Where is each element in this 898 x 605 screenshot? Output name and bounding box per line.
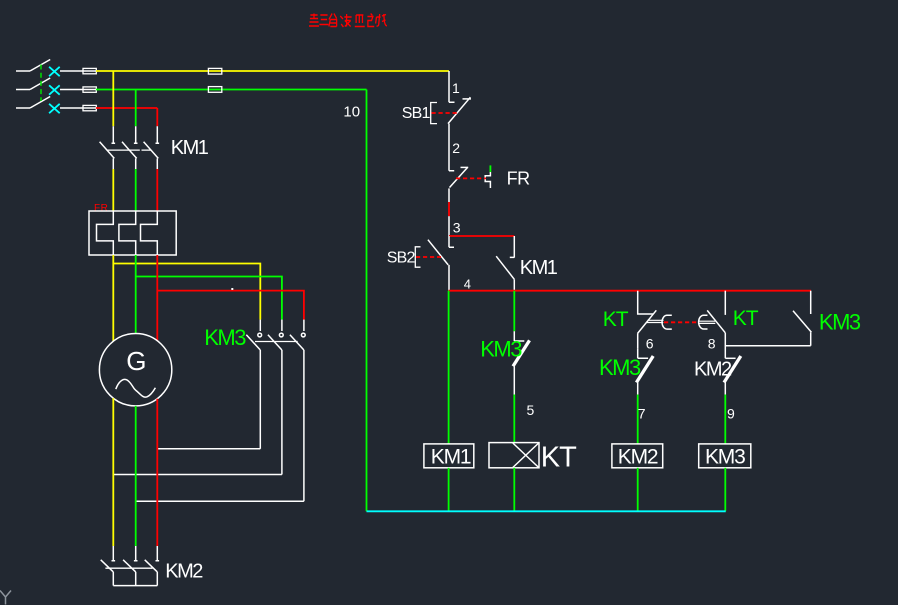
wire KM3 pole1 to red: [157, 448, 260, 450]
wire yellow branch to KM3: [113, 264, 260, 320]
switch QS pole 3 lead: [16, 107, 30, 109]
coil KT box: [489, 443, 539, 468]
wire FR to node3 white: [448, 188, 450, 202]
title 星三角减压启动: [309, 14, 387, 28]
wire 10 green: [366, 90, 368, 512]
wire L3 drop to KM1: [156, 108, 158, 126]
wire KM1 aux to node4: [513, 279, 515, 290]
wire KM3aux branch green: [513, 291, 515, 332]
svg-text:KM3: KM3: [705, 445, 745, 468]
SB1 dashed link: [432, 112, 458, 114]
svg-text:KM3: KM3: [480, 336, 522, 361]
wire red motor to KM2: [156, 399, 158, 546]
svg-text:9: 9: [727, 406, 735, 422]
switch QS linkage dashed: [40, 65, 42, 102]
junction dot: [231, 288, 233, 290]
svg-text:FR: FR: [94, 203, 108, 214]
coil KM3 box: [699, 444, 751, 468]
KM1 main linkage: [107, 149, 152, 151]
svg-text:G: G: [126, 346, 146, 376]
label SB2: [387, 250, 416, 267]
contactor KM2 main pole 2: [123, 546, 137, 586]
svg-text:KM2: KM2: [618, 445, 658, 468]
label SB1: [402, 105, 431, 122]
pushbutton SB2 blade: [428, 240, 448, 265]
coil KM1 text: [431, 445, 471, 468]
wire pole3 to fuse: [60, 107, 96, 109]
svg-text:KM1: KM1: [171, 137, 209, 159]
wire 1 white: [449, 71, 455, 102]
wire red KM1 to FR: [156, 169, 158, 211]
svg-text:SB2: SB2: [387, 250, 416, 267]
fuse FU2-1: [208, 68, 221, 74]
svg-text:SB1: SB1: [402, 105, 431, 122]
contact KM1 aux blade: [496, 256, 514, 279]
motor sine wave: [116, 379, 156, 397]
svg-text:10: 10: [343, 103, 360, 120]
label KM2 NC: [694, 358, 732, 380]
switch QS pole 2 lead: [16, 89, 30, 91]
contact KM3 NC stub: [638, 349, 648, 359]
wire red branch to KM3: [157, 291, 304, 320]
label 4: [464, 277, 471, 292]
svg-text:KM2: KM2: [694, 358, 732, 380]
motor letter G: [126, 346, 146, 376]
svg-text:1: 1: [452, 80, 460, 96]
contactor KM1 main pole 3: [144, 126, 160, 169]
label 10: [343, 103, 360, 120]
label KM3 NC: [599, 355, 641, 380]
wire KM2 coil to cyan: [637, 468, 639, 512]
wire KM3 pole3 to green: [136, 500, 304, 502]
node 3 red wire: [449, 235, 514, 237]
contact KM3 aux NC stub: [514, 331, 524, 341]
contact KM3 NC blade: [636, 356, 653, 383]
wire to KT coil green: [513, 395, 515, 443]
label 2: [452, 140, 460, 156]
svg-text:7: 7: [638, 406, 646, 422]
wire KM1 coil branch green upper: [448, 291, 450, 444]
contact KT NO delayed blade: [699, 310, 725, 332]
wire L2 drop to KM1: [135, 90, 137, 127]
wire 0 cyan bottom: [367, 510, 726, 512]
label KM3 main: [204, 325, 246, 350]
label FR control: [507, 168, 530, 188]
svg-text:3: 3: [453, 219, 461, 235]
switch X mark 2: [49, 85, 60, 94]
wire KM3 NC lower white: [637, 383, 639, 395]
svg-text:KT: KT: [603, 308, 629, 331]
wire L2 green bus: [96, 89, 367, 91]
wire 2 white: [449, 124, 454, 171]
coil KM2 box: [612, 444, 663, 468]
svg-text:FR: FR: [507, 168, 530, 188]
coil KM3 text: [705, 445, 745, 468]
FR heater element 2: [119, 211, 136, 255]
svg-text:2: 2: [452, 140, 460, 156]
wire KM2 NC lower white: [724, 383, 726, 395]
node 4 red bus: [449, 290, 811, 292]
wire L1 yellow bus: [96, 70, 449, 72]
FR contact blade: [450, 167, 469, 187]
pushbutton SB1 blade: [448, 97, 471, 123]
contact KT NC delayed blade: [638, 310, 664, 333]
switch X mark 3: [49, 104, 60, 113]
wire to node3 white: [448, 216, 450, 236]
label 7: [638, 406, 646, 422]
wire node4 to KM3 NO right: [810, 291, 812, 314]
wire yellow motor to KM2: [112, 398, 114, 546]
fuse FU1-3: [83, 105, 96, 110]
FR actuator hook: [485, 172, 490, 188]
contactor KM1 main pole 1: [100, 126, 116, 169]
label 1: [452, 80, 460, 96]
contactor KM1 main pole 2: [122, 126, 138, 169]
wire pole2 to fuse: [60, 89, 96, 91]
fuse FU1-1: [83, 68, 96, 73]
label KM3 NO right: [819, 309, 861, 334]
wire red FR to motor: [156, 255, 158, 341]
label 9: [727, 406, 735, 422]
fuse FU1-2: [83, 87, 96, 92]
SB1 actuator bracket: [431, 103, 437, 124]
FR dashed link: [456, 177, 486, 179]
KT NC delay arc: [662, 315, 672, 329]
contactor KM3 main pole 1: [246, 320, 261, 449]
FR heater element 1: [97, 211, 114, 255]
svg-text:6: 6: [646, 336, 654, 352]
label 8: [708, 336, 716, 352]
svg-text:4: 4: [464, 277, 471, 292]
label 3: [453, 219, 461, 235]
label FR power: [94, 203, 108, 214]
contact KM3 NO right blade: [793, 311, 811, 333]
FR heater element 3: [141, 211, 158, 255]
wire to KM3 coil green: [724, 395, 726, 444]
svg-text:KT: KT: [541, 442, 577, 474]
FR actuator green tick: [489, 165, 491, 172]
label KM1 main: [171, 137, 209, 159]
label KT left: [603, 308, 629, 331]
coil KT X mark: [513, 443, 539, 468]
KM3 main linkage: [255, 341, 298, 343]
wire SB2 to node4: [448, 265, 450, 291]
KT NO delay arc: [699, 315, 708, 329]
wire green KM1 to FR: [135, 169, 137, 211]
UCS icon Y: [0, 591, 11, 605]
svg-text:KM3: KM3: [819, 309, 861, 334]
wire to KM2 coil green: [637, 395, 639, 444]
coil KM1 box: [424, 444, 474, 468]
wire KM1 coil to cyan: [448, 468, 450, 512]
wire KT NO to node8: [724, 333, 726, 359]
svg-text:KM3: KM3: [204, 325, 246, 350]
wire KT NC to node6: [637, 334, 639, 349]
wire pole1 to fuse: [60, 70, 96, 72]
switch QS pole 2 blade: [30, 78, 50, 90]
svg-text:KM1: KM1: [431, 445, 471, 468]
label KT coil: [541, 442, 577, 474]
wire yellow KM1 to FR: [112, 169, 114, 211]
wire segment red: [448, 202, 450, 216]
wire L3 red: [96, 107, 157, 109]
wire green branch to KM3: [136, 277, 282, 320]
contact KM2 NC stub tick: [725, 357, 735, 359]
svg-text:KM3: KM3: [599, 355, 641, 380]
KM2 shorting bar: [113, 585, 157, 587]
KM2 main linkage: [105, 567, 152, 569]
svg-text:KM1: KM1: [520, 257, 558, 279]
label 5: [527, 402, 535, 418]
wire green motor to KM2: [135, 406, 137, 546]
svg-text:KM2: KM2: [165, 560, 203, 582]
pushbutton SB2 stub: [449, 236, 454, 247]
contactor KM3 main pole 3: [290, 320, 305, 502]
wire green FR to motor: [135, 255, 137, 334]
switch QS pole 3 blade: [30, 97, 50, 109]
wire L1 drop to KM1: [112, 71, 114, 126]
switch QS pole 1 blade: [30, 60, 50, 72]
coil KM2 text: [618, 445, 658, 468]
SB2 dashed link: [416, 256, 441, 258]
motor G circle: [99, 334, 171, 406]
switch X mark 1: [49, 67, 60, 76]
contactor KM3 main pole 2: [268, 320, 283, 475]
label 6: [646, 336, 654, 352]
label KM1 aux: [520, 257, 558, 279]
svg-text:5: 5: [527, 402, 535, 418]
KT dashed link: [664, 321, 699, 323]
wire yellow FR to motor: [112, 255, 114, 341]
wire KT coil to cyan: [513, 468, 515, 512]
contact KM2 NC blade: [724, 356, 741, 383]
svg-text:8: 8: [708, 336, 716, 352]
svg-text:KT: KT: [733, 307, 759, 330]
contactor KM2 main pole 1: [101, 546, 115, 586]
wire KM3 aux NO branch horizontal: [725, 345, 810, 347]
wire KM3 pole2 to yellow: [113, 474, 282, 476]
label KM2 main: [165, 560, 203, 582]
thermal relay FR box: [89, 211, 176, 255]
SB2 actuator bracket: [415, 247, 420, 267]
wire node4 to KT NO white: [724, 291, 726, 315]
contactor KM2 main pole 3: [145, 546, 159, 586]
switch QS pole 1 lead: [16, 70, 30, 72]
label KT right: [733, 307, 759, 330]
label KM3 aux NC: [480, 336, 522, 361]
contact KM1 aux stub top: [510, 236, 515, 258]
fuse FU2-2: [208, 87, 221, 93]
wire KM3 NO right lower: [810, 332, 812, 345]
contact KM3 aux NC blade: [513, 340, 530, 366]
wire node4 to KT NC white: [638, 291, 653, 314]
wire KM3 coil to cyan: [724, 468, 726, 512]
wire KM3 aux lower white: [513, 366, 515, 394]
